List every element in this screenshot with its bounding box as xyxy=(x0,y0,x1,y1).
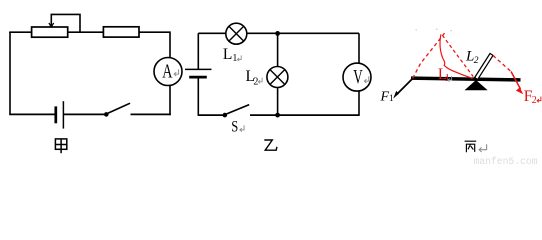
wire top segment left xyxy=(198,32,226,34)
svg-text:2: 2 xyxy=(474,56,479,66)
return mark after L2 xyxy=(258,78,262,84)
force F1 arrow xyxy=(397,79,413,95)
rod on lever xyxy=(475,54,493,80)
junction node top xyxy=(275,31,280,36)
rheostat slider arrowhead xyxy=(49,23,54,27)
svg-text:A: A xyxy=(162,60,172,82)
wire middle branch lower xyxy=(277,88,279,116)
wire top segment right xyxy=(247,32,359,34)
label 甲 xyxy=(55,139,66,153)
dashed line of action of F1 xyxy=(413,33,445,78)
svg-text:manfen5.com: manfen5.com xyxy=(474,156,538,166)
svg-text:L: L xyxy=(223,46,232,63)
return mark after A xyxy=(174,69,178,76)
rheostat R1 body xyxy=(32,27,68,37)
wire left vertical bottom xyxy=(197,78,199,116)
wire bottom segment right xyxy=(250,114,359,116)
ammeter A1 xyxy=(154,58,182,86)
battery B1 long plate xyxy=(62,101,64,128)
wire left vertical top xyxy=(197,33,199,69)
lamp L1 xyxy=(226,23,247,44)
switch S pivot dot xyxy=(223,113,228,118)
force F2 arrow (red) xyxy=(511,72,521,90)
return mark after L1 xyxy=(237,55,241,61)
return mark after V xyxy=(364,76,368,83)
svg-text:2: 2 xyxy=(532,95,537,106)
svg-text:1: 1 xyxy=(389,94,394,104)
battery B2 short plate xyxy=(189,76,207,79)
wire top segment 3 xyxy=(139,32,170,58)
wire bottom left segment xyxy=(9,113,54,115)
svg-text:2: 2 xyxy=(253,77,258,88)
rheostat slider wire xyxy=(51,14,80,32)
switch K1 pivot dot xyxy=(104,112,109,117)
label 丙 xyxy=(465,141,477,152)
wire right vertical bottom xyxy=(358,91,360,116)
return mark after L1 xyxy=(448,76,452,82)
wire bottom middle segment xyxy=(63,113,106,115)
svg-text:1: 1 xyxy=(445,73,450,84)
return mark after S xyxy=(240,125,244,131)
dashed line of action of F2 xyxy=(493,56,512,73)
switch S blade xyxy=(226,105,250,115)
fulcrum xyxy=(465,80,488,90)
svg-text:S: S xyxy=(231,118,238,135)
battery B2 long plate xyxy=(185,68,212,70)
lamp L2 xyxy=(267,67,288,88)
wire bottom segment left xyxy=(198,114,225,116)
svg-text:F: F xyxy=(380,90,390,105)
wire middle branch upper xyxy=(277,33,279,66)
switch K1 blade xyxy=(107,103,130,113)
wire right vertical bottom xyxy=(169,85,171,115)
return mark after F2 (red) xyxy=(537,97,541,103)
wire top segment 2 xyxy=(68,31,104,33)
wire left vertical xyxy=(9,32,11,114)
svg-text:V: V xyxy=(353,66,363,88)
brace leader for L1 xyxy=(440,34,473,78)
svg-text:1: 1 xyxy=(232,53,237,64)
wire top segment 1 xyxy=(9,31,31,33)
wire right vertical top xyxy=(358,33,360,63)
dashed moment arm L1 xyxy=(442,35,473,76)
label 乙 xyxy=(264,140,277,150)
battery B1 short plate xyxy=(54,106,57,123)
resistor R2 body xyxy=(103,27,139,37)
wire bottom right segment xyxy=(131,113,171,115)
voltmeter V1 xyxy=(343,63,371,91)
lever bar xyxy=(411,78,521,80)
junction node bottom xyxy=(275,113,280,118)
return mark after 丙 xyxy=(479,144,487,152)
faint artifact dots xyxy=(416,29,452,32)
